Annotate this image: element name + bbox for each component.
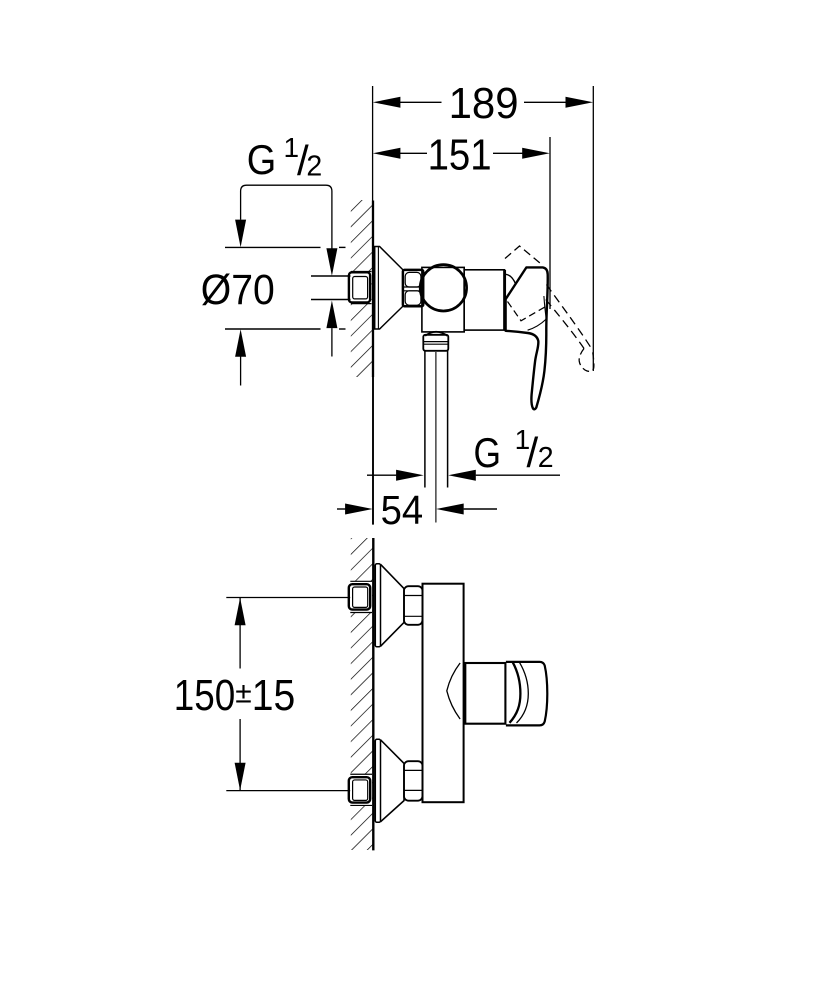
svg-text:15: 15 (252, 671, 295, 720)
svg-text:54: 54 (381, 487, 424, 533)
svg-text:2: 2 (306, 150, 322, 182)
svg-text:G: G (474, 429, 502, 476)
svg-text:151: 151 (428, 131, 492, 180)
svg-text:2: 2 (538, 442, 554, 474)
svg-text:Ø70: Ø70 (201, 267, 275, 314)
svg-text:189: 189 (449, 79, 519, 128)
svg-text:G: G (247, 136, 276, 183)
svg-text:/: / (527, 429, 539, 476)
svg-text:±: ± (235, 676, 251, 709)
svg-text:150: 150 (174, 671, 236, 720)
